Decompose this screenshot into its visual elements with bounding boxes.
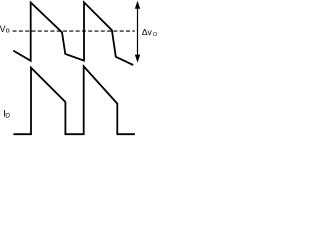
svg-text:O: O xyxy=(153,32,158,38)
label iD xyxy=(3,109,10,120)
waveform iD (diode current pulses) xyxy=(13,66,134,134)
svg-text:o: o xyxy=(6,26,10,35)
waveform vO xyxy=(13,2,133,65)
dashed average line xyxy=(13,30,135,32)
svg-text:D: D xyxy=(5,113,10,120)
label ΔvO xyxy=(142,27,158,38)
label vO xyxy=(0,24,10,35)
ripple arrow ΔvO (double-headed vertical) xyxy=(135,1,140,63)
svg-text:Δv: Δv xyxy=(142,27,153,37)
